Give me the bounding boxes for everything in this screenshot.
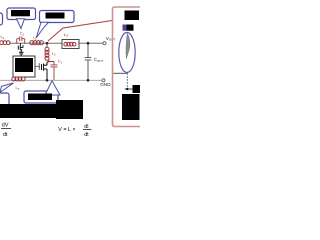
wire: top rail — [9, 42, 103, 44]
terminal Vout — [103, 42, 106, 45]
svg-text:C2: C2 — [58, 59, 63, 65]
redacted block bottom right — [56, 100, 83, 119]
inductor L3 box — [62, 40, 79, 49]
svg-text:dI: dI — [84, 124, 89, 130]
cursor dashed line — [126, 73, 128, 90]
formula V = L x dI/dt — [58, 124, 91, 138]
capacitor C2 — [49, 62, 58, 81]
scope legend purple swatch — [123, 25, 127, 31]
redacted scope legend text — [127, 25, 134, 31]
callout bubble B5 tail — [45, 81, 60, 95]
gate driver box — [13, 56, 35, 77]
redacted block in driver box — [15, 58, 33, 72]
node: switch junction — [46, 42, 49, 45]
redacted block bottom left — [0, 104, 70, 118]
scope callout box — [113, 7, 142, 127]
formula dV/dt — [1, 122, 11, 138]
scope baseline — [114, 72, 128, 74]
inductor L4 (input, cut at edge) — [0, 41, 10, 45]
terminal GND — [102, 79, 105, 82]
capacitor C1 — [17, 36, 25, 43]
callout bubble B3 — [40, 11, 75, 23]
callout bubble B2 tail — [17, 19, 25, 29]
node: output junction — [87, 42, 90, 45]
redacted scope title — [125, 11, 140, 21]
node: ground junction Q2 — [46, 79, 49, 82]
svg-text:dt: dt — [3, 132, 8, 138]
pointer line to scope box — [48, 21, 112, 42]
inductor L3 coil — [64, 42, 76, 46]
svg-text:L2: L2 — [52, 51, 56, 57]
svg-text:dV: dV — [2, 122, 9, 128]
redacted text in bubble B3 — [46, 13, 65, 19]
callout bubble B1 (cut off at left edge) — [0, 13, 3, 25]
cursor arrow — [127, 88, 134, 90]
redacted scope block bottom — [122, 94, 140, 120]
callout bubble B2 — [7, 8, 36, 20]
scope ring ellipse — [119, 33, 135, 73]
wire: driver output to Q2 gate — [35, 63, 40, 70]
cursor arrowhead — [124, 88, 128, 91]
capacitor COUT — [85, 45, 92, 80]
callout bubble B3 tail — [36, 22, 48, 38]
transistor Q1 — [18, 43, 23, 56]
svg-text:dt: dt — [84, 132, 89, 138]
node: ground junction COUT — [87, 79, 90, 82]
redacted text in bubble B5 — [28, 94, 52, 101]
callout bubble B4 tail — [0, 83, 14, 92]
inductor L2 — [45, 44, 49, 62]
callout bubble B4 (cut off at left edge) — [0, 93, 9, 105]
svg-text:L3: L3 — [64, 32, 68, 38]
svg-text:GND: GND — [100, 82, 111, 87]
svg-text:L4: L4 — [1, 34, 5, 40]
inductor L1 — [30, 41, 44, 45]
transistor Q2 — [42, 62, 49, 80]
redacted text in bubble B2 — [11, 10, 30, 16]
ringing spike — [126, 34, 130, 59]
svg-text:V = L ×: V = L × — [58, 127, 75, 133]
svg-text:VOUT: VOUT — [106, 36, 116, 42]
svg-text:C1: C1 — [20, 31, 25, 37]
inductor L0 — [12, 77, 25, 81]
ground rail — [0, 79, 102, 81]
svg-text:L0: L0 — [16, 85, 20, 91]
svg-text:L1: L1 — [33, 35, 37, 41]
callout bubble B5 — [24, 91, 58, 103]
svg-text:COUT: COUT — [94, 57, 104, 63]
redacted cursor readout — [133, 85, 141, 93]
